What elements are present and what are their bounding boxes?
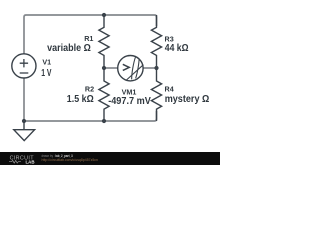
CircuitLab logo: zigzag + LAB [9, 160, 21, 163]
svg-text:LAB: LAB [26, 159, 35, 164]
wire: top rail from left column to right column [24, 15, 157, 54]
svg-text:R1: R1 [84, 34, 93, 43]
node dot: top of R1 [102, 13, 106, 17]
resistor R2 [99, 68, 109, 121]
labels [41, 34, 209, 107]
watermark bar [0, 152, 220, 165]
node dot: bottom of R2 [102, 119, 106, 123]
svg-text:-497.7 mV: -497.7 mV [108, 96, 151, 107]
ground [14, 121, 35, 141]
svg-text:1.5 kΩ: 1.5 kΩ [67, 94, 94, 105]
svg-text:R3: R3 [165, 34, 174, 43]
svg-text:V1: V1 [42, 58, 51, 67]
node dot: R1/R2/VM1 junction [102, 66, 106, 70]
wire: bottom rail from V1 bottom / ground to R4 bottom [24, 78, 157, 121]
voltage source V1 [12, 54, 36, 78]
svg-text:mystery Ω: mystery Ω [165, 94, 210, 105]
svg-text:1 V: 1 V [41, 68, 52, 79]
node dot: ground junction [22, 119, 26, 123]
node dot: R3/R4/VM1 junction [154, 66, 158, 70]
resistor R4 [151, 68, 161, 121]
wire: voltmeter right terminal to node between R3/R4 [143, 67, 157, 69]
svg-text:R2: R2 [85, 84, 94, 93]
svg-text:variable Ω: variable Ω [47, 43, 91, 54]
svg-text:http://circuitlab.com/c/usq8p4: http://circuitlab.com/c/usq8p457z5cn [42, 158, 99, 162]
wire: node between R1/R2 to voltmeter left terminal [104, 67, 118, 69]
resistor R3 [151, 15, 161, 68]
svg-text:44 kΩ: 44 kΩ [165, 43, 189, 54]
resistor R1 [99, 15, 109, 68]
svg-text:R4: R4 [165, 84, 174, 93]
